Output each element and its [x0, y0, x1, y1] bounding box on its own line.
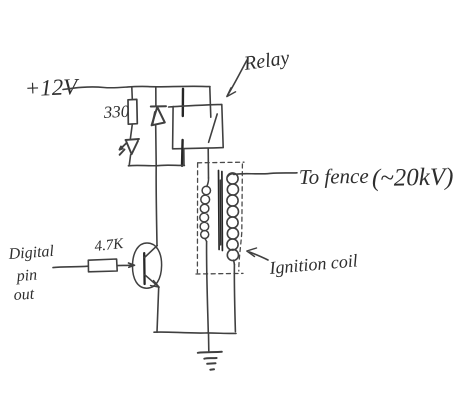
svg-text:+12V: +12V	[24, 74, 80, 101]
svg-text:Digital: Digital	[7, 243, 55, 263]
svg-text:330: 330	[102, 102, 130, 122]
svg-text:pin: pin	[15, 267, 38, 285]
wire driver bottom rail	[128, 164, 184, 167]
relay label arrow	[227, 60, 247, 97]
resistor R1 330	[128, 99, 137, 124]
svg-text:out: out	[13, 286, 35, 304]
svg-text:Relay: Relay	[242, 47, 291, 75]
wire main bottom rail	[154, 332, 236, 333]
ground	[198, 352, 222, 370]
Relay label	[242, 47, 291, 75]
wire rail to R1	[131, 87, 134, 100]
svg-text:To fence: To fence	[299, 164, 369, 189]
wire secondary return	[234, 265, 235, 332]
relay K1 box	[169, 104, 224, 148]
To fence label	[299, 164, 454, 192]
flyback diode D1	[151, 106, 166, 125]
ignition coil T1 dashed box	[196, 162, 244, 274]
wire R2 to base	[117, 263, 134, 267]
wire switch to primary	[207, 149, 209, 178]
LED D2	[120, 139, 140, 155]
wire LED to bottom rail	[129, 155, 130, 166]
wire ground stub	[208, 333, 210, 351]
label 330	[102, 102, 130, 122]
svg-text:4.7K: 4.7K	[94, 236, 125, 255]
wire emitter	[157, 287, 159, 332]
wire relay coil terminal bottom	[181, 140, 184, 166]
wire +12V rail	[63, 86, 210, 89]
wire collector	[155, 166, 158, 246]
relay switch contact	[209, 114, 218, 142]
wire primary return	[207, 242, 209, 334]
Digital pin out label	[7, 243, 55, 304]
core	[219, 171, 223, 251]
label 4.7K	[94, 236, 125, 255]
primary winding	[200, 178, 211, 242]
wire rail to D1	[155, 87, 157, 106]
wire relay switch common	[210, 87, 211, 117]
svg-text:(~20kV): (~20kV)	[372, 164, 454, 192]
wire input to R2	[53, 266, 88, 267]
Ignition coil label	[268, 250, 359, 278]
wire D1 to bottom rail	[155, 126, 158, 166]
svg-text:Ignition coil: Ignition coil	[268, 250, 359, 278]
transistor Q1	[132, 243, 161, 288]
resistor R2 4.7K	[88, 259, 117, 272]
wire relay to bottom rail	[183, 149, 185, 166]
+12V label	[24, 74, 80, 101]
wire relay coil terminal top	[182, 89, 185, 116]
wire secondary to fence	[234, 173, 297, 175]
ignition coil label arrow	[247, 248, 268, 260]
wire R1 to LED	[130, 124, 132, 138]
secondary winding	[227, 173, 239, 265]
